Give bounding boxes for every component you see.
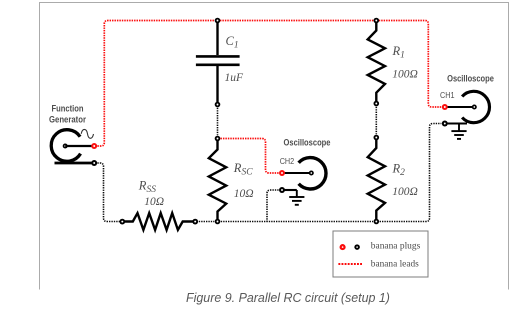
oscilloscope CH2 bbox=[282, 158, 326, 190]
wire: black dotted bottom rail, R_SC bottom plug to R2 bottom node bbox=[221, 221, 373, 223]
wire: black dotted, FG black plug to R_SS left plug bbox=[97, 163, 119, 222]
ground: CH2 oscilloscope ground bbox=[289, 190, 304, 205]
node: R1 bottom node bbox=[374, 101, 380, 107]
svg-text:100Ω: 100Ω bbox=[392, 186, 418, 198]
banana plug: legend black sample bbox=[354, 244, 360, 250]
wire: red banana lead, R_SC top node to CH2 red plug bbox=[221, 139, 279, 174]
wire: black dotted, CH2 black plug down to bottom rail junction bbox=[267, 190, 279, 222]
banana plug: FG black output bbox=[91, 160, 97, 166]
wire: black dotted, R_SS right plug to R_SC bottom plug bbox=[199, 221, 214, 223]
wire: legend red dotted sample bbox=[338, 263, 362, 265]
svg-text:banana plugs: banana plugs bbox=[371, 241, 421, 252]
node: R2 top node bbox=[374, 135, 380, 141]
node: R1 top node bbox=[374, 18, 380, 24]
banana plug: CH1 red input bbox=[442, 104, 448, 110]
wire: red banana lead, FG red plug up to top rail and to C1 top node bbox=[97, 21, 217, 147]
wire: black dotted, R1 bottom node to R2 top node bbox=[375, 107, 377, 134]
banana plug: R_SC bottom (black) bbox=[215, 219, 221, 225]
svg-text:Oscilloscope: Oscilloscope bbox=[447, 73, 494, 83]
node: R2 bottom node bbox=[374, 219, 380, 225]
resistor R1 bbox=[368, 21, 385, 104]
svg-text:Figure 9. Parallel RC circuit: Figure 9. Parallel RC circuit (setup 1) bbox=[186, 291, 390, 305]
banana plug: R_SS right (black) bbox=[192, 219, 198, 225]
function generator FG bbox=[51, 129, 93, 163]
svg-text:1uF: 1uF bbox=[225, 72, 245, 84]
svg-text:Generator: Generator bbox=[49, 114, 86, 124]
svg-text:100Ω: 100Ω bbox=[392, 69, 418, 81]
svg-text:banana leads: banana leads bbox=[371, 259, 419, 270]
resistor R_SC bbox=[209, 139, 226, 222]
node: C1 bottom node bbox=[215, 102, 221, 108]
svg-text:Oscilloscope: Oscilloscope bbox=[284, 137, 331, 147]
banana plug: R_SS left (black) bbox=[119, 219, 125, 225]
wire: black dotted, C1 bottom node to R_SC top node bbox=[217, 108, 219, 135]
wire: red banana lead, R1 top node to CH1 red plug bbox=[376, 21, 441, 108]
svg-text:CH1: CH1 bbox=[440, 90, 455, 100]
svg-text:10Ω: 10Ω bbox=[144, 196, 164, 208]
legend box bbox=[333, 231, 428, 277]
banana plug: CH1 black ground bbox=[442, 121, 448, 127]
banana plug: CH2 red input bbox=[279, 170, 285, 176]
capacitor C1 bbox=[196, 21, 240, 105]
banana plug: legend red sample bbox=[340, 244, 346, 250]
wire: black dotted, R2 bottom node to CH1 black plug bbox=[380, 124, 442, 222]
resistor R2 bbox=[368, 138, 385, 222]
banana plug: CH2 black ground bbox=[279, 187, 285, 193]
ground: CH1 oscilloscope ground bbox=[451, 124, 466, 139]
svg-text:10Ω: 10Ω bbox=[234, 188, 254, 200]
resistor R_SS bbox=[123, 213, 196, 230]
node: R_SC top node bbox=[215, 136, 221, 142]
wire: red banana lead, C1 top node to R1 top node bbox=[218, 20, 377, 22]
banana plug: FG red output bbox=[91, 143, 97, 149]
svg-text:Function: Function bbox=[52, 103, 84, 113]
node: C1 top node bbox=[215, 18, 221, 24]
oscilloscope CH1 bbox=[445, 91, 490, 123]
svg-text:CH2: CH2 bbox=[280, 156, 295, 166]
